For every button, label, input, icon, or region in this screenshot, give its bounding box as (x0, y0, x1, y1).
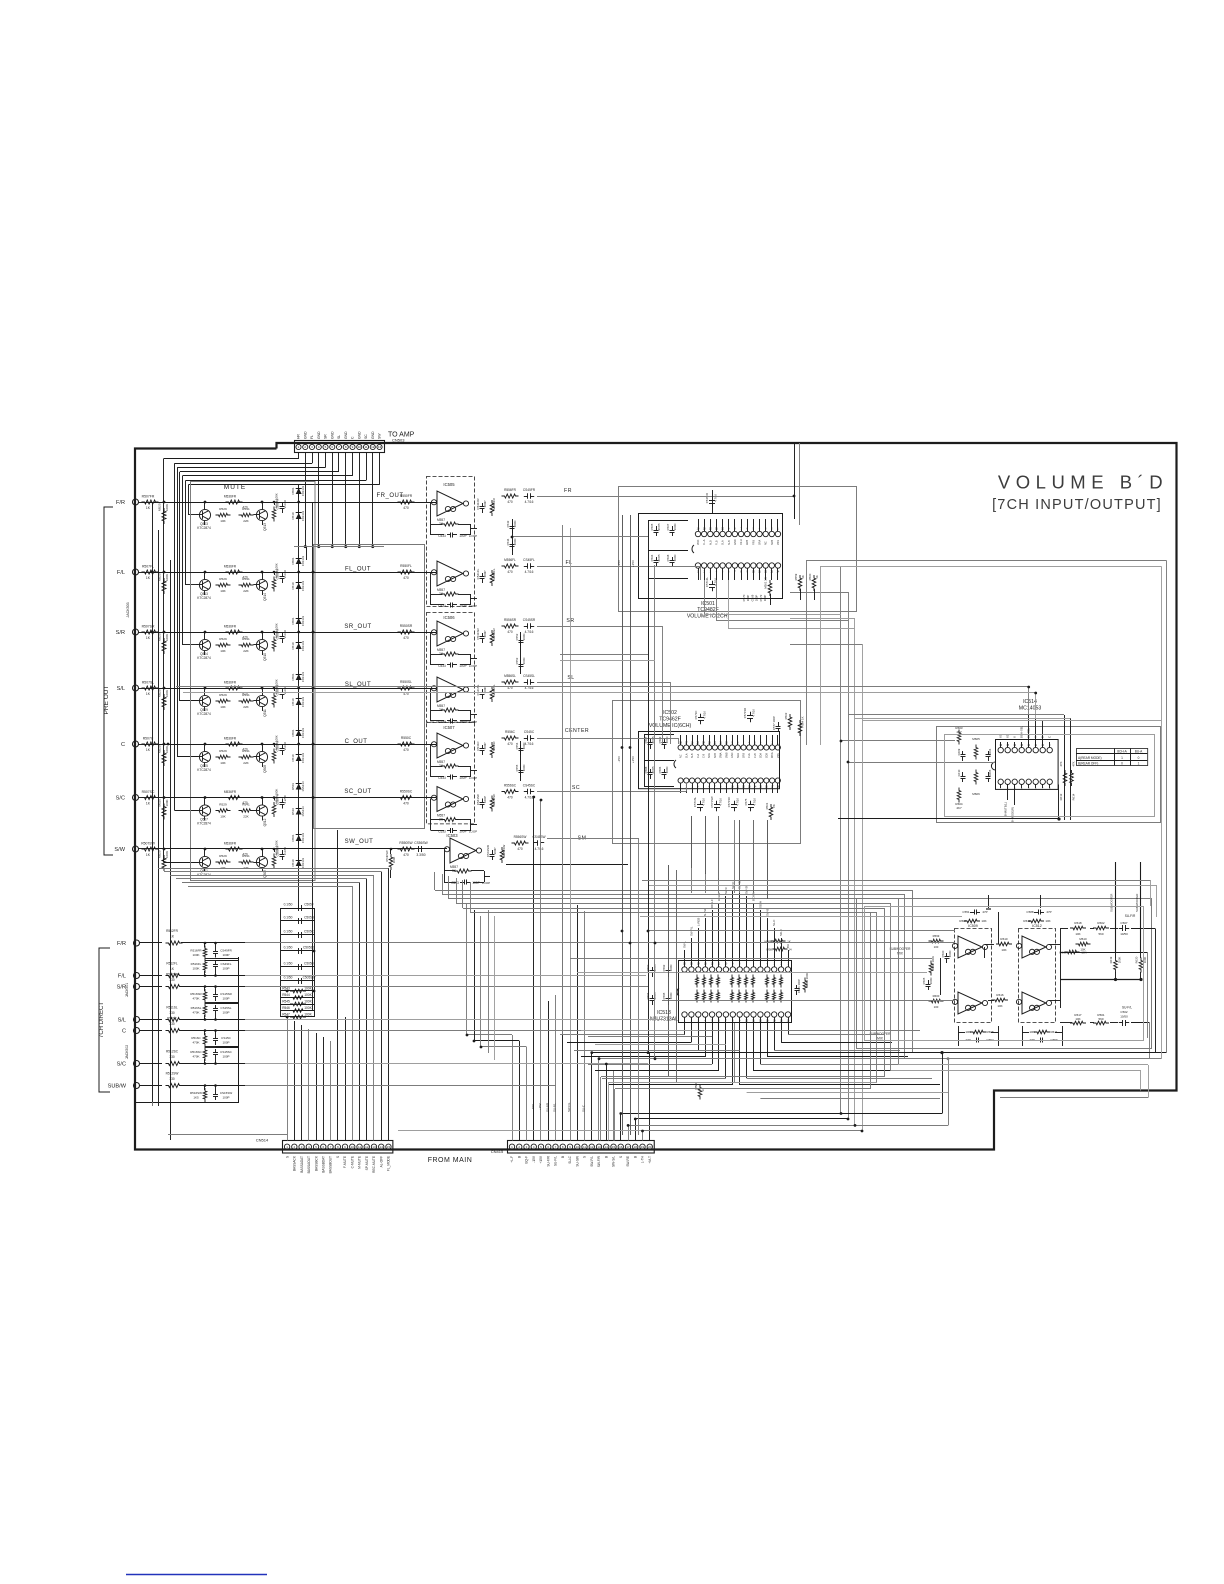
capacitor C533 100P row 6 (447, 830, 451, 832)
resistor R602 560 (1093, 926, 1109, 930)
diode D510 1SS133 (296, 755, 302, 761)
svg-text:R543: R543 (282, 987, 290, 991)
transistor Q514 KTC2874 (256, 579, 267, 590)
resistor R608 10K below (970, 1030, 986, 1034)
resistor R616b 10K (1065, 950, 1080, 954)
svg-text:C609: C609 (957, 748, 961, 755)
svg-text:FL_MODE: FL_MODE (387, 1156, 391, 1171)
svg-text:Q514: Q514 (263, 593, 267, 601)
connector CN514 (283, 1141, 393, 1154)
diode D508 1SS133 (296, 699, 302, 705)
wire SW row extension (428, 848, 447, 850)
svg-text:B-MODE(R): B-MODE(R) (1011, 807, 1015, 822)
svg-text:47/25: 47/25 (657, 523, 661, 530)
svg-text:10: 10 (358, 445, 362, 449)
svg-text:M520: M520 (158, 503, 162, 511)
resistor R547 100K (281, 1016, 314, 1018)
svg-text:22K: 22K (243, 649, 249, 653)
svg-text:SCB: SCB (714, 753, 717, 758)
svg-text:100P: 100P (222, 967, 229, 971)
wire SR output row (537, 626, 662, 628)
svg-text:CS15SL: CS15SL (220, 1006, 232, 1010)
resistor R540SW 100K (389, 854, 393, 870)
svg-text:C571FL: C571FL (705, 577, 709, 587)
svg-text:BU: BU (786, 944, 790, 948)
svg-text:100N: 100N (513, 521, 517, 528)
connector CN415 (508, 1141, 655, 1154)
svg-text:R606 100K: R606 100K (931, 956, 935, 970)
svg-text:CS45C: CS45C (524, 730, 535, 734)
capacitor C541FR 100P (482, 503, 484, 507)
svg-text:FRB: FRB (752, 540, 755, 545)
svg-text:2.2/50: 2.2/50 (283, 500, 287, 508)
svg-text:BASSBOUT: BASSBOUT (329, 1156, 333, 1173)
op-amp IC512b (1022, 992, 1046, 1014)
svg-text:LOOP: LOOP (482, 881, 490, 885)
svg-text:100K: 100K (165, 799, 169, 806)
svg-text:4.7/16: 4.7/16 (719, 798, 723, 806)
resistor R544 100K (281, 997, 314, 999)
wire rail tie (152, 1102, 154, 1106)
wire corner x1149.5 down (1149, 1023, 1151, 1059)
svg-text:C553: C553 (515, 657, 519, 664)
svg-text:R507FR: R507FR (142, 495, 155, 499)
svg-text:JACK503: JACK503 (126, 602, 130, 617)
svg-text:D501: D501 (291, 783, 295, 790)
wires IC513 bottom right elbows (740, 1084, 940, 1086)
svg-text:R541: R541 (242, 637, 250, 641)
capacitor CS15SR 100P (shunt) (215, 991, 217, 995)
svg-text:SW-L: SW-L (683, 941, 687, 948)
resistor R516SL 470K (shunt) (203, 1003, 207, 1017)
svg-text:SC: SC (364, 434, 368, 439)
svg-text:KTC2874: KTC2874 (197, 873, 211, 877)
svg-text:IC506: IC506 (443, 615, 455, 620)
svg-text:SU-F/L: SU-F/L (1122, 1006, 1132, 1010)
svg-text:0.1/50: 0.1/50 (284, 930, 293, 934)
svg-text:+15V: +15V (631, 756, 635, 763)
svg-text:C541FR: C541FR (476, 498, 480, 510)
svg-text:KTC2874: KTC2874 (197, 712, 211, 716)
transistor Q513 KTC2874 (256, 509, 267, 520)
svg-text:C528FR: C528FR (276, 846, 280, 857)
svg-text:100K: 100K (304, 1006, 312, 1010)
wire C543 bus (512, 519, 514, 555)
resistor R601 560 (1093, 1021, 1109, 1025)
svg-text:F/L: F/L (117, 570, 125, 576)
svg-text:10K: 10K (220, 649, 226, 653)
capacitor C553 100N (520, 660, 522, 664)
diode D507 1SS133 (296, 674, 302, 680)
resistor R550FR 470 (398, 500, 415, 504)
wire control pair y687 (176, 686, 1029, 688)
capacitor C571SR 4.7/16 above IC502 (750, 712, 752, 716)
svg-text:CS49FL: CS49FL (220, 962, 231, 966)
svg-text:10K: 10K (981, 919, 986, 923)
svg-text:SWA: SWA (720, 752, 723, 758)
svg-text:19: 19 (641, 1145, 645, 1149)
svg-text:R541: R541 (242, 577, 250, 581)
svg-text:SU-C: SU-C (568, 1155, 572, 1163)
resistor R563 (above IC502) (788, 714, 792, 730)
svg-text:M605: M605 (972, 737, 980, 741)
bracket 7CH DIRECT (99, 948, 110, 1092)
svg-text:100K: 100K (165, 574, 169, 581)
svg-text:100K: 100K (392, 857, 396, 864)
op-amp IC505a (FR) (437, 491, 463, 516)
svg-text:KTC2874: KTC2874 (197, 822, 211, 826)
svg-text:100N: 100N (513, 539, 517, 546)
svg-text:D501: D501 (291, 557, 295, 564)
svg-text:IC507: IC507 (443, 725, 455, 730)
svg-text:R516FL: R516FL (191, 962, 202, 966)
svg-text:R550SC: R550SC (400, 790, 413, 794)
op-amp block IC509 box (955, 929, 992, 1023)
resistor R541 22K row 5 (239, 755, 254, 758)
svg-text:R529: R529 (219, 803, 227, 807)
op-amp IC506b (SL) (437, 677, 463, 702)
svg-text:C505B: C505B (304, 916, 314, 920)
svg-text:470: 470 (517, 847, 523, 851)
svg-text:1SS133: 1SS133 (301, 781, 305, 792)
svg-text:CS45SL: CS45SL (523, 674, 535, 678)
resistor R541 22K row 6 (239, 809, 254, 812)
IC513 pin notch (677, 988, 679, 996)
wire y1065 to right (898, 1064, 1148, 1066)
capacitor C587 47/25 (IC502) (650, 739, 652, 743)
svg-text:SU-F/R: SU-F/R (546, 1155, 550, 1166)
junction dots (297, 501, 300, 504)
resistor M548 100K row 3 (272, 637, 276, 652)
svg-text:SR_OUT: SR_OUT (344, 624, 371, 630)
wires IC502 pins down to IC513 risers (691, 816, 693, 868)
svg-text:FLB: FLB (715, 540, 718, 545)
svg-text:R612: R612 (1023, 919, 1031, 923)
transistor Q501 KTC2874 (199, 856, 210, 867)
wires 7ch direct row F/R (181, 942, 245, 944)
svg-text:22K: 22K (243, 866, 249, 870)
resistor R529 10K row 7 (216, 860, 231, 863)
svg-text:100N: 100N (929, 978, 933, 985)
wires mute row 3 (148, 632, 313, 634)
IC501 internal wires (648, 521, 650, 578)
wire bus x313 (312, 502, 314, 1010)
resistor R616 10K (992, 998, 1008, 1002)
svg-text:100K: 100K (165, 690, 169, 697)
svg-text:100P: 100P (222, 1041, 229, 1045)
wire feeders for x841-862 (790, 592, 848, 594)
capacitor C558 47P (1034, 912, 1038, 914)
capacitor C551 47P (987, 909, 991, 910)
svg-text:14: 14 (380, 1145, 384, 1149)
resistor R606 100K vert (929, 961, 933, 976)
capacitor C555 100N (520, 767, 522, 771)
wire subwoofer input y917 (640, 916, 962, 918)
svg-text:C505F: C505F (304, 903, 314, 907)
svg-text:1K: 1K (801, 575, 805, 579)
resistor R610 10K (996, 942, 1012, 946)
capacitor C505F 0.1/50 (281, 908, 314, 910)
svg-text:R512SR: R512SR (166, 973, 179, 977)
wire elbow from CN503 pin 1 (298, 453, 300, 459)
svg-text:4.7/16: 4.7/16 (714, 494, 718, 502)
capacitor CS45FL 4.7/16 (polar) (524, 566, 528, 568)
wires below IC501 to x806-820 (806, 561, 808, 578)
resistor M556SC 68K (490, 796, 494, 812)
capacitor C560b 47P below (1037, 1040, 1041, 1042)
resistor M548 100K row 7 (272, 854, 276, 869)
svg-text:100K: 100K (192, 953, 199, 957)
svg-text:SC_OUT: SC_OUT (344, 789, 371, 795)
connector CN503 TO_AMP (295, 441, 385, 453)
svg-text:M556C: M556C (492, 740, 496, 751)
svg-text:SL_OUT: SL_OUT (345, 682, 371, 688)
svg-text:Q512: Q512 (263, 818, 267, 826)
resistor R546 100K (281, 1010, 314, 1012)
svg-text:D501: D501 (291, 729, 295, 736)
svg-text:2K: 2K (772, 804, 776, 808)
svg-text:1SS133: 1SS133 (301, 671, 305, 682)
svg-text:100N: 100N (948, 951, 952, 958)
svg-text:SW-SR: SW-SR (745, 885, 749, 894)
svg-text:M-MUTE: M-MUTE (358, 1156, 362, 1169)
IC502 pin row bottom (678, 778, 683, 783)
svg-text:+L-F: +L-F (510, 1156, 514, 1163)
op-amp IC506a (SR) (437, 621, 463, 646)
svg-text:ARB: ARB (746, 540, 749, 545)
svg-text:VDD: VDD (697, 540, 700, 545)
IC501 bottom pin stubs (698, 568, 700, 580)
gray loop around IC501 (619, 487, 857, 612)
svg-text:C541C: C541C (476, 741, 480, 751)
svg-text:R544: R544 (282, 993, 290, 997)
svg-text:0.1/50: 0.1/50 (284, 903, 293, 907)
svg-text:4.7/16: 4.7/16 (702, 798, 706, 806)
wire riser x734 above IC513 (734, 820, 736, 893)
svg-text:Q511: Q511 (263, 709, 267, 717)
svg-text:11: 11 (583, 1145, 586, 1149)
resistor R507SC 1K (142, 796, 159, 800)
svg-text:CS45SR: CS45SR (523, 618, 536, 622)
svg-text:BASSACK: BASSACK (293, 1155, 297, 1171)
svg-text:15: 15 (387, 1145, 391, 1149)
wires IC514 bottom stubs (1007, 785, 1009, 801)
svg-text:11: 11 (364, 445, 367, 449)
capacitor C604 100N (IC514) (988, 751, 990, 755)
svg-text:330: 330 (169, 1055, 175, 1059)
resistor R507SL 1K (142, 686, 159, 690)
resistor R529 10K row 6 (216, 809, 231, 812)
svg-text:1SS133: 1SS133 (301, 640, 305, 651)
svg-text:IC512: IC512 (1032, 924, 1042, 928)
capacitor C533 100P row 2 (447, 604, 451, 606)
resistor M556SL 470 (502, 680, 519, 684)
wire vertical x848 (848, 592, 850, 1119)
svg-text:4.7/16: 4.7/16 (753, 798, 757, 806)
resistor R550SL 470 (398, 686, 415, 690)
svg-text:560: 560 (1098, 1017, 1103, 1021)
capacitor C528 2.2/50 row 1 (282, 503, 284, 507)
resistor M610 10K (1076, 942, 1091, 946)
svg-text:CS49FR: CS49FR (220, 949, 232, 953)
resistor R512FL 1K (166, 974, 183, 978)
feedback wires row 5 (430, 745, 432, 777)
svg-text:100N: 100N (522, 743, 526, 750)
svg-text:100P: 100P (483, 570, 487, 577)
svg-text:CN503: CN503 (392, 438, 405, 443)
wires IC513 bottom extra elbows (581, 1030, 698, 1032)
IC501 pin row bottom (695, 563, 700, 568)
capacitor CS49FR 100P (shunt) (215, 948, 217, 952)
wire gnd bus y1102 (135, 1102, 239, 1104)
svg-text:C566: C566 (650, 554, 654, 561)
wires IC513 risers (691, 868, 693, 893)
shunt gnd tie row SUB/W (205, 1102, 216, 1104)
svg-text:VOLUME B´D: VOLUME B´D (998, 472, 1168, 493)
svg-text:C528FR: C528FR (276, 499, 280, 510)
svg-text:M536FR: M536FR (224, 737, 237, 741)
capacitor C541SR 100P (482, 633, 484, 637)
wire long vertical x563 (562, 525, 564, 1035)
svg-text:SUBWOOFER: SUBWOOFER (1110, 894, 1114, 912)
resistor R512SC 330 (166, 1062, 183, 1066)
capacitor C571SL 4.7/16 below IC502 (700, 801, 702, 805)
svg-text:C604: C604 (988, 748, 992, 755)
svg-text:10K: 10K (220, 815, 226, 819)
svg-text:1K: 1K (815, 575, 819, 579)
svg-text:A: A (1034, 736, 1038, 738)
gray loop around subwoofer mixer (857, 899, 1152, 1049)
svg-text:R550SW: R550SW (399, 841, 413, 845)
wire R550C row (313, 744, 436, 746)
svg-text:SP-MUTE: SP-MUTE (365, 1156, 369, 1170)
resistor M557 3K row 3 (442, 652, 459, 656)
resistor M557 3K row 5 (442, 764, 459, 768)
resistor M557 3K row 1 (442, 522, 459, 526)
transistor Q502 KTC2874 (256, 856, 267, 867)
diode D514 1SS133 (296, 860, 302, 866)
svg-text:10K: 10K (220, 705, 226, 709)
capacitor CS15C 100P (shunt) (215, 1035, 217, 1039)
capacitor C505SC 0.1/50 (281, 950, 314, 952)
svg-text:B: B (517, 1156, 521, 1158)
wire elbow from CN503 pin 5 (325, 453, 327, 467)
wire y1071 to right (891, 1070, 1141, 1072)
svg-text:1K: 1K (146, 506, 151, 510)
transistor Q503 KTC2874 (199, 509, 210, 520)
svg-text:C565: C565 (922, 977, 926, 984)
resistor R507SW 1K (142, 847, 159, 851)
svg-text:R618: R618 (1074, 921, 1082, 925)
svg-text:100K: 100K (165, 504, 169, 511)
svg-text:S: S (583, 1156, 587, 1158)
svg-text:C-B: C-B (702, 753, 705, 758)
op-amp IC512a (1022, 936, 1046, 958)
svg-text:SRB: SRB (771, 540, 774, 545)
svg-text:2.2/50: 2.2/50 (283, 630, 287, 638)
svg-text:R512FR: R512FR (166, 929, 179, 933)
svg-text:[7CH INPUT/OUTPUT]: [7CH INPUT/OUTPUT] (992, 497, 1162, 513)
svg-text:12: 12 (365, 1145, 369, 1149)
capacitor C505SW 0.1/50 (281, 980, 314, 982)
svg-text:SW-RE: SW-RE (626, 1156, 630, 1167)
svg-text:SW-F/L: SW-F/L (689, 926, 693, 936)
shunt gnd tie row F/L (205, 958, 216, 960)
svg-text:SUB/W: SUB/W (108, 1083, 127, 1089)
svg-text:Q513: Q513 (263, 523, 267, 531)
svg-text:R620: R620 (1135, 956, 1139, 963)
svg-text:M556FL: M556FL (504, 558, 516, 562)
svg-text:10K: 10K (1045, 919, 1050, 923)
wire CN503 pin 8 to gnd bus (345, 453, 347, 547)
resistor M556C 68K (490, 742, 494, 758)
svg-text:470K: 470K (192, 997, 199, 1001)
svg-text:MIX: MIX (877, 1037, 884, 1041)
svg-text:7CH DIRECT: 7CH DIRECT (99, 1002, 105, 1038)
capacitor C575 4.7/16 below IC502 (750, 801, 752, 805)
svg-text:M536FR: M536FR (224, 565, 237, 569)
IC514 wires (841, 740, 955, 742)
wires 7ch direct row S/C (181, 1063, 245, 1065)
svg-text:GND: GND (357, 431, 361, 439)
junction dots bottom mesh (590, 1051, 593, 1054)
wires mute row 4 (148, 688, 313, 690)
svg-text:10K: 10K (997, 1004, 1002, 1008)
svg-text:2.2/50: 2.2/50 (283, 742, 287, 750)
wire diode bus x298.7 (298, 488, 300, 910)
resistor M548 100K row 5 (272, 749, 276, 764)
resistor M556SL 56K (490, 686, 494, 702)
svg-text:100K: 100K (165, 851, 169, 858)
wires IC501 pins down to loops (704, 580, 706, 614)
svg-text:330: 330 (169, 1077, 175, 1081)
svg-text:FL: FL (310, 435, 314, 439)
svg-text:2.2/50: 2.2/50 (283, 570, 287, 578)
wire right edge link y560 (806, 560, 1167, 562)
capacitor C566 47/25 (IC501) (656, 557, 658, 561)
svg-text:4.7/16: 4.7/16 (752, 709, 756, 717)
wire CN503 pin 4 to gnd bus (318, 453, 320, 547)
capacitor C547FR 4.7/16 above IC501 (712, 497, 714, 501)
svg-text:ACH-F: ACH-F (717, 892, 721, 901)
svg-text:R616: R616 (996, 993, 1004, 997)
resistor R617 10K (1070, 1021, 1086, 1025)
svg-text:10/50: 10/50 (1120, 1015, 1128, 1019)
svg-text:C571SR: C571SR (743, 708, 747, 719)
IC514 pin notch (991, 762, 995, 770)
svg-text:SU-F/R: SU-F/R (1125, 914, 1136, 918)
wire CN503 pin 12 to gnd bus (372, 453, 374, 547)
wire y1131 left extension (398, 1130, 643, 1132)
svg-text:C551: C551 (962, 910, 970, 914)
svg-text:B: B (633, 1156, 637, 1158)
resistor R541 22K row 7 (239, 860, 254, 863)
svg-text:C571SL: C571SL (693, 797, 697, 808)
svg-text:S: S (336, 1156, 340, 1158)
svg-text:M606: M606 (972, 792, 980, 796)
svg-text:R610: R610 (1000, 937, 1008, 941)
svg-text:0.1/50: 0.1/50 (284, 962, 293, 966)
wires mute row 2 (148, 572, 313, 574)
svg-text:+15V: +15V (539, 1155, 543, 1163)
wires CN415 verticals (512, 1035, 514, 1141)
svg-text:C528FR: C528FR (276, 741, 280, 752)
resistor R618 10K (1070, 926, 1086, 930)
svg-text:13: 13 (597, 1145, 601, 1149)
resistor R516SC 470K (shunt) (203, 1047, 207, 1061)
svg-text:IC514: IC514 (1023, 699, 1037, 705)
resistor R550SR 470 (398, 630, 415, 634)
